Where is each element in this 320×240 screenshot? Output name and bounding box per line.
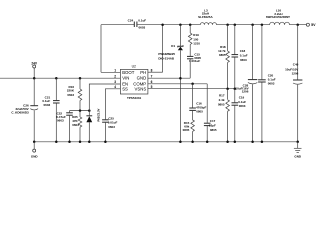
capacitor C22 0.47uF enable	[56, 111, 73, 142]
capacitor C16 4700pF	[189, 84, 206, 114]
wire top rail left segment to C24	[101, 24, 134, 26]
IC U2 TPS54331 buck regulator	[120, 65, 147, 101]
svg-text:C49: C49	[293, 63, 299, 67]
node bottom rail C20	[261, 141, 264, 144]
resistor R16 220K enable upper	[67, 78, 82, 110]
diode D1 PWHM6B25 schottky	[158, 44, 183, 61]
capacitor C18 feedforward	[232, 25, 248, 89]
diode D2 zener enable clamp	[86, 108, 100, 141]
wire L16 to 5V terminal	[290, 24, 307, 26]
capacitor C26 22uF/50V input bulk	[11, 78, 38, 142]
resistor R19 snubber	[188, 25, 200, 46]
svg-text:3: 3	[114, 80, 116, 84]
svg-text:C17: C17	[210, 119, 216, 123]
svg-text:U2: U2	[132, 65, 136, 69]
wire D1 cathode from top rail	[179, 25, 181, 47]
svg-text:0603: 0603	[57, 119, 64, 123]
wire EN node horizontal	[70, 110, 90, 112]
resistor R18 12.7k feedback upper	[218, 25, 229, 89]
svg-text:C24: C24	[128, 19, 134, 23]
svg-text:0805: 0805	[210, 128, 217, 132]
node bottom rail C49 ground	[296, 141, 299, 144]
svg-text:0.01uF: 0.01uF	[108, 121, 118, 125]
node 24V junction on input rail	[33, 77, 36, 80]
svg-text:5V: 5V	[311, 23, 316, 27]
svg-text:DIO-214AB: DIO-214AB	[158, 57, 175, 61]
svg-text:GND: GND	[31, 154, 39, 158]
svg-text:0603: 0603	[108, 125, 115, 129]
svg-text:0603: 0603	[67, 93, 74, 97]
node bottom rail R25	[79, 141, 82, 144]
capacitor C25 0.01uF soft start	[102, 116, 117, 141]
svg-text:33pF: 33pF	[209, 124, 216, 128]
svg-text:220K: 220K	[67, 89, 75, 93]
capacitor C24	[128, 19, 147, 30]
terminal GND bottom left	[31, 142, 39, 159]
terminal 5V	[306, 23, 316, 27]
node D1 junction on top rail	[179, 23, 182, 26]
svg-text:0805: 0805	[183, 128, 190, 132]
wire BOOT pin1 to riser	[101, 71, 120, 73]
capacitor C17 33pF	[204, 119, 217, 142]
svg-text:SWPA3015S2R2MT: SWPA3015S2R2MT	[266, 15, 290, 19]
svg-text:7: 7	[151, 74, 153, 78]
node bottom rail C26 GND	[33, 141, 36, 144]
node bottom rail C19	[234, 141, 237, 144]
svg-text:0603: 0603	[240, 58, 247, 62]
svg-text:1206: 1206	[292, 72, 299, 76]
capacitor C49 10uF/10V	[285, 25, 302, 142]
svg-text:0805: 0805	[196, 109, 203, 113]
svg-text:0603: 0603	[44, 103, 51, 107]
wire GND pin7 stub	[148, 77, 190, 79]
node VSNS C18 C19 junction	[234, 87, 237, 90]
wire top rail L3 to L16	[217, 24, 270, 26]
node R16 junction on input rail	[79, 77, 82, 80]
terminal 24V input	[31, 62, 38, 79]
wire EN riser to pin3	[89, 84, 120, 111]
wire PH pin8 stub	[148, 71, 163, 73]
wire bottom ground rail	[34, 141, 298, 143]
wire COMP to C17 corner	[206, 84, 208, 123]
capacitor C28 10uF/16V output bulk	[235, 25, 257, 142]
svg-text:TPS54331: TPS54331	[127, 96, 142, 100]
node bottom rail C28	[251, 141, 254, 144]
resistor R15 compensation	[183, 111, 195, 142]
capacitor C19	[232, 89, 247, 142]
wire COMP pin6	[148, 83, 207, 85]
wire D1 anode down through GND pin wire to bottom rail	[179, 50, 181, 142]
svg-text:VSNS: VSNS	[134, 87, 146, 92]
svg-text:0603: 0603	[72, 123, 79, 127]
svg-text:C18: C18	[240, 49, 246, 53]
wire top rail C24 to L3	[137, 24, 200, 26]
node bottom rail C17	[206, 141, 209, 144]
node D1 line crossing GND pin wire	[179, 77, 182, 80]
node C21 junction on input rail	[55, 77, 58, 80]
inductor L16 2.2uH	[266, 9, 290, 25]
svg-text:0.001uF: 0.001uF	[189, 59, 200, 63]
node snubber junction on top rail	[189, 23, 192, 26]
svg-text:GND: GND	[137, 76, 147, 81]
capacitor C21 0.1uF input	[42, 78, 59, 142]
svg-text:PWHM6B25: PWHM6B25	[158, 52, 175, 56]
wire C15 to GND pin wire	[189, 59, 191, 78]
node PH junction on top rail	[161, 23, 164, 26]
svg-text:0.1uF: 0.1uF	[138, 19, 146, 23]
svg-text:PH: PH	[140, 70, 146, 75]
svg-text:0805: 0805	[219, 53, 226, 57]
resistor R25 47K enable lower	[72, 111, 82, 142]
node C20 junction on top rail	[261, 23, 264, 26]
node D2 EN junction	[88, 109, 91, 112]
svg-text:0603: 0603	[139, 25, 146, 29]
wire input rail 24V to VIN pin2	[0, 77, 120, 79]
svg-text:0603: 0603	[268, 82, 275, 86]
wire PH riser	[162, 25, 164, 72]
ground symbol bottom right	[294, 142, 302, 159]
node bottom rail C21	[55, 141, 58, 144]
capacitor C20 0.1uF	[258, 25, 276, 142]
node bottom rail R17	[226, 141, 229, 144]
node bottom rail C22	[68, 141, 71, 144]
svg-text:2.4k: 2.4k	[219, 98, 225, 102]
wire VSNS pin5 to divider	[148, 88, 235, 90]
wire SS pin4 to C25	[105, 89, 120, 120]
node bottom rail C25	[104, 141, 107, 144]
svg-text:VIN: VIN	[122, 76, 129, 81]
svg-text:P6DZ3.3V: P6DZ3.3V	[96, 108, 100, 121]
node bottom rail R15	[191, 141, 194, 144]
node bottom rail D2	[88, 141, 91, 144]
svg-text:0603: 0603	[239, 104, 246, 108]
svg-text:BOOT: BOOT	[122, 70, 135, 75]
node R16 R25 EN junction	[79, 109, 82, 112]
svg-text:GND: GND	[294, 154, 302, 158]
node C18 junction on top rail	[234, 23, 237, 26]
wire BOOT riser	[100, 25, 102, 73]
svg-text:SLF6025A: SLF6025A	[198, 15, 213, 19]
node C49 junction 5V	[296, 23, 299, 26]
resistor R17 2.4k feedback lower	[218, 89, 230, 142]
svg-text:C_KD6X6D3: C_KD6X6D3	[11, 110, 29, 114]
svg-text:D1: D1	[171, 44, 175, 48]
node bottom rail D1 GND line	[179, 141, 182, 144]
node VSNS R18 R17 junction	[226, 87, 229, 90]
svg-text:SS: SS	[122, 87, 128, 92]
node R18 junction on top rail	[226, 23, 229, 26]
inductor L3 22uH	[198, 8, 216, 24]
node C28 junction on top rail	[251, 23, 254, 26]
svg-text:1206: 1206	[242, 90, 249, 94]
capacitor C15 snubber	[187, 45, 201, 64]
svg-text:2: 2	[114, 74, 116, 78]
svg-text:0805: 0805	[218, 103, 225, 107]
node COMP C16 junction	[191, 83, 194, 86]
svg-text:1210: 1210	[193, 42, 200, 46]
svg-text:R17: R17	[219, 94, 225, 98]
